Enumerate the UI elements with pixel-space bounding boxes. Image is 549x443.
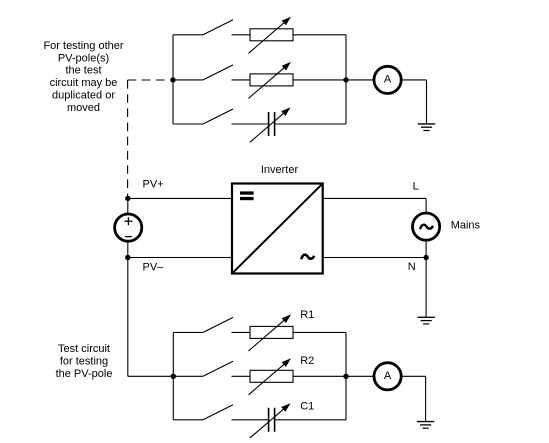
- svg-text:A: A: [384, 74, 392, 86]
- svg-text:PV-pole(s): PV-pole(s): [58, 52, 109, 64]
- variable capacitor C1: [232, 403, 347, 438]
- ammeter (top test circuit): [374, 66, 401, 93]
- dashed wire down to PV+ node: [127, 80, 129, 196]
- junction node PV+: [125, 196, 130, 201]
- svg-text:C1: C1: [300, 401, 314, 413]
- junction on top bank left bus: [170, 77, 175, 82]
- svg-text:L: L: [413, 180, 419, 192]
- inverter U1: [232, 184, 323, 274]
- wire from PV&#8722; node down to bottom bank: [128, 258, 174, 377]
- svg-text:N: N: [408, 261, 416, 273]
- junction node N: [423, 255, 428, 260]
- wire PV+ to inverter: [128, 197, 232, 199]
- svg-text:PV–: PV–: [143, 262, 165, 274]
- junction node PV&#8722;: [125, 255, 130, 260]
- variable resistor (top bank row 2): [232, 62, 347, 99]
- svg-text:A: A: [384, 370, 392, 382]
- variable resistor (top bank row 1): [232, 17, 347, 54]
- wire to bottom ammeter: [346, 375, 374, 377]
- junction on top bank right bus: [343, 77, 348, 82]
- variable capacitor (top bank row 3): [232, 107, 347, 142]
- svg-text:Mains: Mains: [451, 219, 481, 231]
- switch (top bank row 2): [173, 65, 233, 80]
- svg-text:moved: moved: [67, 102, 100, 114]
- dashed wire from annotation to top bank junction: [128, 79, 170, 81]
- svg-text:Inverter: Inverter: [261, 164, 299, 176]
- wire N from inverter to mains: [323, 257, 426, 259]
- ground (top test circuit): [418, 124, 435, 131]
- svg-text:PV+: PV+: [143, 178, 164, 190]
- wire N to ground: [425, 258, 427, 318]
- svg-text:the test: the test: [65, 65, 101, 77]
- switch (top bank row 3): [173, 109, 233, 124]
- svg-text:duplicated or: duplicated or: [52, 89, 115, 101]
- svg-text:For testing other: For testing other: [43, 40, 123, 52]
- svg-text:circuit may be: circuit may be: [50, 77, 118, 89]
- ammeter (bottom test circuit): [374, 363, 401, 390]
- wire from top ammeter to ground: [401, 80, 426, 124]
- switch (top bank row 1): [173, 20, 233, 35]
- svg-text:R2: R2: [300, 355, 314, 367]
- junction on bottom bank left bus: [171, 374, 176, 379]
- switch (bottom bank row R1): [173, 317, 233, 332]
- svg-text:R1: R1: [300, 309, 314, 321]
- switch (bottom bank row R2): [173, 361, 233, 376]
- wire: bottom bank left bus: [172, 332, 174, 419]
- note: top-left annotation text: [43, 40, 123, 114]
- variable resistor R2: [232, 358, 347, 395]
- note: bottom-left annotation text: [56, 343, 113, 380]
- junction on bottom bank right bus: [343, 374, 348, 379]
- DC source (PV simulator): [115, 198, 142, 257]
- ground (mains): [418, 317, 435, 324]
- AC source Mains: [413, 213, 440, 258]
- wire: bottom bank right bus: [345, 332, 347, 419]
- wire to top ammeter: [346, 79, 374, 81]
- svg-text:Test circuit: Test circuit: [58, 343, 110, 355]
- wire: top bank right bus: [345, 35, 347, 124]
- wire L from inverter to mains: [323, 198, 426, 213]
- variable resistor R1: [232, 314, 347, 351]
- svg-text:for testing: for testing: [60, 355, 108, 367]
- wire: top bank left bus: [172, 35, 174, 124]
- wire PV&#8722; to inverter: [128, 257, 232, 259]
- wire from bottom ammeter to ground: [401, 376, 425, 421]
- svg-text:the PV-pole: the PV-pole: [56, 368, 113, 380]
- switch (bottom bank row C1): [173, 405, 233, 420]
- ground (bottom test circuit): [417, 422, 434, 429]
